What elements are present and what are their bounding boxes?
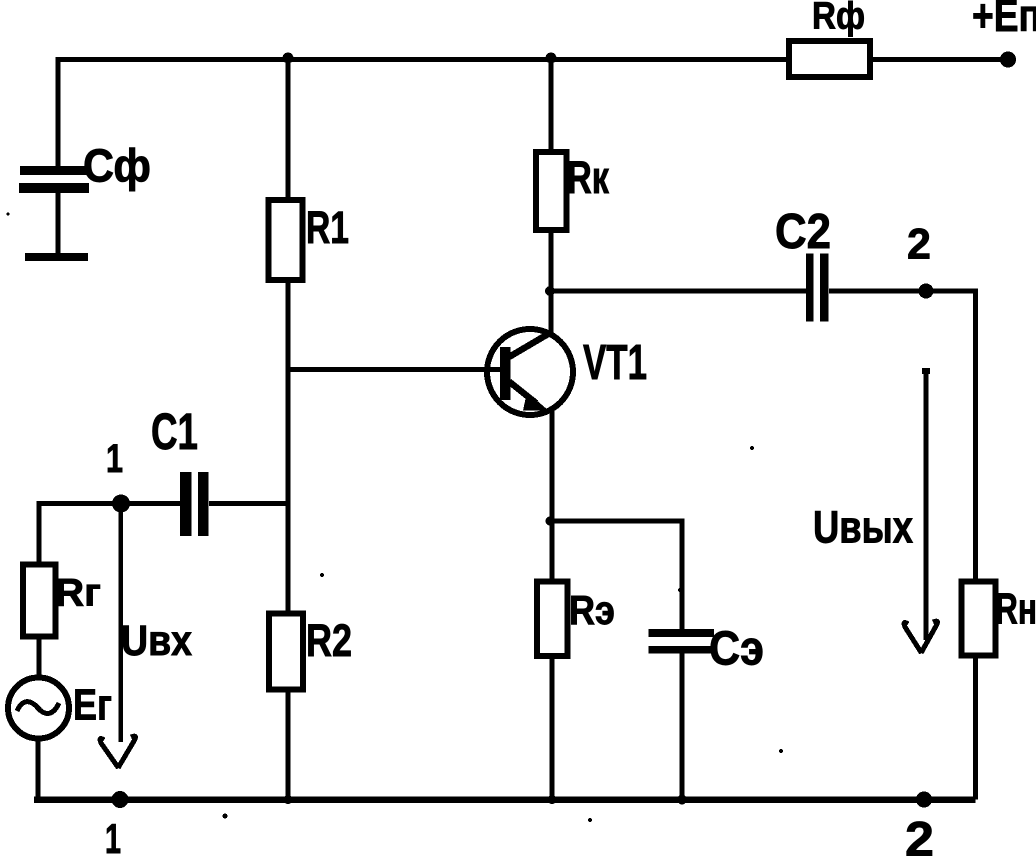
svg-text:C2: C2 <box>775 205 831 259</box>
svg-text:Rф: Rф <box>812 0 865 38</box>
svg-text:Rн: Rн <box>995 585 1036 634</box>
svg-text:2: 2 <box>905 813 934 856</box>
svg-text:Uвых: Uвых <box>813 502 913 553</box>
svg-text:+Еп: +Еп <box>972 0 1036 41</box>
svg-text:Rк: Rк <box>567 152 609 203</box>
svg-text:Uвх: Uвх <box>121 617 192 665</box>
svg-text:1: 1 <box>105 815 121 856</box>
svg-text:R2: R2 <box>306 615 352 666</box>
svg-text:2: 2 <box>907 221 931 269</box>
svg-text:VT1: VT1 <box>583 336 647 390</box>
svg-text:Rг: Rг <box>55 572 101 615</box>
svg-text:Сф: Сф <box>83 140 151 192</box>
svg-text:C1: C1 <box>151 403 198 460</box>
svg-text:Rэ: Rэ <box>569 587 615 633</box>
svg-text:R1: R1 <box>306 202 349 253</box>
svg-text:Сэ: Сэ <box>709 623 764 676</box>
svg-text:1: 1 <box>106 437 123 481</box>
svg-text:Ег: Ег <box>73 681 112 730</box>
